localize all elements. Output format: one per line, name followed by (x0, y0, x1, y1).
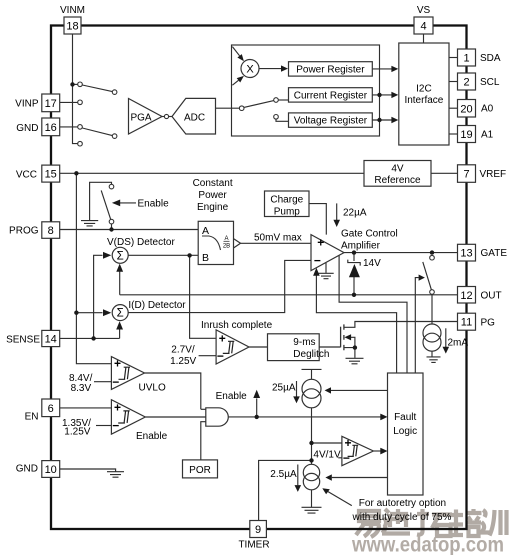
svg-text:16: 16 (45, 122, 57, 134)
svg-text:I(D) Detector: I(D) Detector (128, 300, 186, 311)
svg-text:Logic: Logic (393, 426, 417, 437)
svg-text:Power: Power (198, 190, 227, 201)
svg-text:Inrush complete: Inrush complete (201, 320, 273, 331)
svg-text:VREF: VREF (480, 169, 507, 180)
svg-text:2: 2 (463, 77, 469, 89)
svg-text:−: − (343, 451, 350, 465)
svg-text:11: 11 (461, 317, 472, 329)
svg-text:Fault: Fault (394, 412, 416, 423)
svg-text:PROG: PROG (9, 226, 39, 237)
svg-text:8: 8 (48, 225, 54, 237)
svg-text:SENSE: SENSE (6, 335, 40, 346)
svg-text:ADC: ADC (184, 113, 205, 124)
svg-text:17: 17 (45, 98, 57, 110)
svg-text:4V/1V: 4V/1V (313, 450, 341, 461)
svg-text:−: − (112, 418, 119, 432)
svg-text:+: + (114, 357, 121, 371)
svg-text:TIMER: TIMER (238, 540, 269, 551)
svg-text:Voltage Register: Voltage Register (294, 116, 368, 127)
svg-text:PGA: PGA (130, 113, 151, 124)
svg-text:1: 1 (463, 53, 469, 65)
svg-text:Gate Control: Gate Control (341, 228, 398, 239)
svg-text:4: 4 (420, 21, 426, 33)
svg-text:SCL: SCL (480, 77, 500, 88)
svg-text:Σ: Σ (117, 308, 124, 320)
svg-text:Σ: Σ (117, 250, 124, 262)
svg-text:14V: 14V (363, 258, 381, 269)
svg-text:A1: A1 (481, 130, 494, 141)
svg-text:9-ms: 9-ms (293, 337, 315, 348)
svg-text:I2C: I2C (416, 84, 432, 95)
svg-text:GND: GND (16, 123, 38, 134)
svg-text:For autoretry option: For autoretry option (359, 498, 446, 509)
svg-text:−: − (112, 375, 119, 389)
svg-text:1.25V: 1.25V (170, 356, 196, 367)
svg-text:Current Register: Current Register (294, 90, 368, 101)
svg-text:8.4V/: 8.4V/ (69, 373, 93, 384)
svg-text:GND: GND (16, 464, 38, 475)
svg-text:Enable: Enable (138, 199, 170, 210)
svg-text:19: 19 (460, 129, 472, 141)
svg-text:Pump: Pump (274, 207, 301, 218)
svg-text:VS: VS (417, 5, 431, 16)
svg-text:+: + (317, 235, 324, 249)
svg-text:6: 6 (48, 403, 54, 415)
svg-text:Deglitch: Deglitch (293, 349, 329, 360)
svg-text:VINM: VINM (60, 5, 85, 16)
svg-text:Enable: Enable (216, 391, 248, 402)
svg-text:12: 12 (460, 290, 472, 302)
svg-text:EN: EN (25, 412, 39, 423)
svg-text:Constant: Constant (193, 178, 233, 189)
svg-text:2mA: 2mA (448, 338, 469, 349)
svg-text:22µA: 22µA (343, 208, 367, 219)
svg-text:50mV max: 50mV max (254, 233, 302, 244)
svg-text:X: X (246, 63, 254, 75)
svg-text:A0: A0 (481, 104, 494, 115)
svg-text:25µA: 25µA (272, 382, 296, 393)
svg-text:UVLO: UVLO (139, 382, 166, 393)
svg-text:V(DS) Detector: V(DS) Detector (107, 237, 175, 248)
svg-text:www.edatop.com: www.edatop.com (351, 534, 504, 555)
svg-text:+: + (219, 331, 226, 345)
svg-text:15: 15 (45, 169, 57, 181)
svg-text:14: 14 (45, 334, 57, 346)
svg-text:Reference: Reference (374, 175, 421, 186)
svg-text:OUT: OUT (481, 290, 502, 301)
svg-text:2.5µA: 2.5µA (270, 469, 297, 480)
svg-text:A: A (202, 225, 209, 237)
svg-text:VINP: VINP (15, 99, 39, 110)
svg-text:−: − (217, 349, 224, 363)
svg-text:10: 10 (45, 464, 57, 476)
svg-text:Interface: Interface (404, 95, 443, 106)
svg-text:+: + (114, 401, 121, 415)
svg-text:2.7V/: 2.7V/ (171, 345, 195, 356)
svg-text:4V: 4V (391, 164, 404, 175)
svg-text:Amplifier: Amplifier (341, 241, 381, 252)
svg-text:8.3V: 8.3V (71, 383, 92, 394)
svg-text:Charge: Charge (270, 195, 303, 206)
svg-text:13: 13 (460, 248, 472, 260)
svg-text:PG: PG (481, 317, 496, 328)
svg-text:with duty cycle of 75%: with duty cycle of 75% (352, 512, 452, 523)
svg-text:7: 7 (463, 169, 469, 181)
svg-text:SDA: SDA (480, 53, 501, 64)
svg-text:9: 9 (255, 524, 261, 536)
svg-text:Engine: Engine (197, 202, 229, 213)
svg-text:18: 18 (66, 21, 78, 33)
svg-text:POR: POR (189, 465, 211, 476)
svg-text:+: + (345, 436, 352, 450)
svg-text:B: B (202, 252, 209, 264)
svg-text:2B: 2B (223, 244, 230, 250)
svg-text:1.25V: 1.25V (64, 427, 90, 438)
svg-text:Power Register: Power Register (296, 64, 365, 75)
svg-text:−: − (314, 254, 321, 268)
svg-text:GATE: GATE (481, 248, 508, 259)
svg-text:VCC: VCC (16, 170, 37, 181)
svg-text:20: 20 (460, 103, 472, 115)
svg-text:Enable: Enable (136, 431, 168, 442)
